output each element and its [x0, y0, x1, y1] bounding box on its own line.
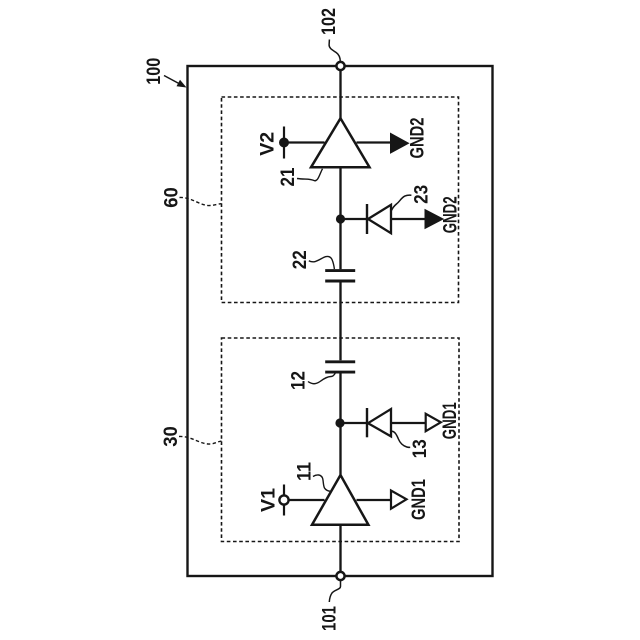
wire amp 21 base to capacitor 22 — [339, 167, 341, 269]
svg-text:21: 21 — [277, 167, 299, 186]
label 22 — [289, 250, 311, 269]
node V1 open circle — [279, 495, 288, 504]
label 100 — [143, 58, 165, 85]
diode 23 triangle — [368, 205, 391, 233]
svg-text:GND2: GND2 — [407, 117, 429, 158]
leader arrow for 100 — [164, 76, 187, 88]
dashed block 30 — [222, 338, 460, 542]
node junction dot (diode 13 tap) — [336, 419, 344, 427]
wire amp 21 to GND2 arrow — [357, 141, 393, 143]
label 12 — [288, 371, 310, 390]
leader for 21 — [297, 169, 323, 181]
terminal 101 — [336, 572, 344, 580]
input terminal V2 (tick) — [283, 127, 285, 159]
label V2 — [257, 132, 279, 156]
label 23 — [411, 185, 433, 204]
label 102 — [318, 8, 340, 35]
svg-text:23: 23 — [411, 185, 433, 204]
op-amp U11 triangle — [312, 475, 368, 525]
svg-text:GND1: GND1 — [408, 479, 430, 520]
svg-text:30: 30 — [160, 426, 182, 447]
label 30 — [160, 426, 182, 447]
svg-text:100: 100 — [143, 58, 165, 85]
label GND2 (diode 23) — [439, 196, 461, 233]
svg-text:V1: V1 — [258, 488, 280, 512]
wire amp 11 base to terminal 101 — [339, 525, 341, 572]
leader for 23 — [392, 195, 412, 210]
svg-text:11: 11 — [294, 462, 316, 481]
node junction dot (diode 23 tap) — [336, 215, 344, 223]
wire amp 11 to GND1 arrow — [357, 499, 393, 501]
label 13 — [409, 439, 431, 458]
ground GND2 filled arrow (diode 23) — [426, 210, 443, 227]
svg-text:102: 102 — [318, 8, 340, 35]
terminal 102 — [336, 62, 344, 70]
label 101 — [319, 606, 341, 631]
label GND1 (amp 11) — [408, 479, 430, 520]
ground GND1 open arrow (diode 13) — [426, 414, 441, 431]
svg-text:13: 13 — [409, 439, 431, 458]
wire: terminal 102 to amp 21 apex — [339, 70, 341, 118]
svg-text:12: 12 — [288, 371, 310, 390]
wire diode 23 to GND2 arrow — [391, 218, 426, 220]
wire diode 13 to GND1 arrow — [391, 422, 426, 424]
leader for 13 — [392, 431, 411, 447]
op-amp U21 triangle — [311, 118, 370, 167]
wire V1 to amp 11 — [289, 499, 325, 501]
wire capacitor 22 to capacitor 12 — [339, 282, 341, 360]
svg-text:60: 60 — [161, 187, 183, 208]
ground GND1 open arrow (amp 11) — [391, 491, 407, 509]
leader for 102 — [329, 40, 340, 62]
node V2 dot — [280, 138, 289, 147]
svg-text:GND1: GND1 — [439, 402, 461, 439]
svg-text:V2: V2 — [257, 132, 279, 156]
leader for 11 — [313, 475, 331, 491]
label 11 — [294, 462, 316, 481]
label GND2 (amp 21) — [407, 117, 429, 158]
leader for 101 — [329, 581, 340, 602]
ground GND2 filled arrow (amp 21) — [391, 134, 408, 152]
svg-text:22: 22 — [289, 250, 311, 269]
leader for 12 — [308, 373, 335, 383]
diode 13 triangle — [368, 409, 391, 436]
diode 13 cathode bar — [366, 408, 368, 437]
wire V2 to amp 21 — [284, 141, 325, 143]
label 60 — [161, 187, 183, 208]
wire capacitor 12 to amp 11 apex — [339, 373, 341, 474]
outer box 100 — [188, 66, 493, 576]
leader for 22 — [309, 256, 335, 269]
wire junction to diode 13 — [340, 422, 367, 424]
diode 23 cathode bar — [366, 204, 368, 234]
capacitor C12 plates — [325, 360, 355, 363]
label 21 — [277, 167, 299, 186]
svg-text:GND2: GND2 — [439, 196, 461, 233]
dashed block 60 — [222, 97, 459, 303]
label V1 — [258, 488, 280, 512]
dashed leader for 30 — [179, 436, 222, 444]
input terminal V1 (tick) — [283, 485, 285, 516]
wire junction to diode 23 — [341, 218, 368, 220]
dashed leader for 60 — [180, 197, 222, 205]
svg-text:101: 101 — [319, 606, 341, 631]
label GND1 (diode 13) — [439, 402, 461, 439]
capacitor C22 plates — [325, 269, 355, 272]
